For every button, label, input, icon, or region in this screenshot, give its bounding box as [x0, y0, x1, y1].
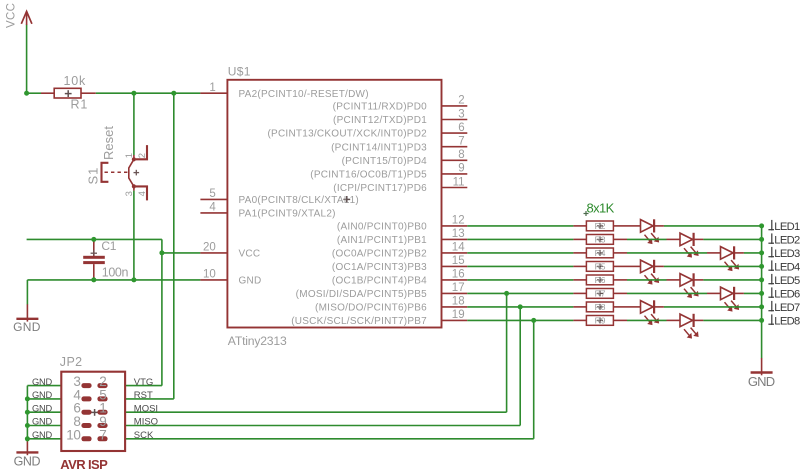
svg-text:(PCINT13/CKOUT/XCK/INT0)PD2: (PCINT13/CKOUT/XCK/INT0)PD2 — [267, 129, 427, 140]
svg-text:10: 10 — [203, 269, 216, 281]
svg-text:5: 5 — [209, 188, 215, 200]
svg-text:LED8: LED8 — [774, 316, 800, 328]
svg-text:12: 12 — [452, 215, 465, 227]
svg-text:(USCK/SCL/SCK/PINT7)PB7: (USCK/SCL/SCK/PINT7)PB7 — [291, 316, 427, 327]
svg-text:GND: GND — [32, 430, 53, 440]
svg-text:R7: R7 — [595, 288, 606, 298]
svg-text:R6: R6 — [595, 275, 606, 285]
svg-text:4: 4 — [137, 191, 148, 196]
svg-text:(PCINT14/INT1)PD3: (PCINT14/INT1)PD3 — [331, 142, 427, 153]
svg-text:LED1: LED1 — [774, 221, 800, 233]
svg-text:18: 18 — [452, 296, 465, 308]
svg-text:14: 14 — [452, 242, 465, 254]
svg-text:ATtiny2313: ATtiny2313 — [228, 334, 287, 348]
svg-text:R8: R8 — [595, 302, 606, 312]
svg-text:LED7: LED7 — [774, 302, 800, 314]
svg-text:GND: GND — [32, 390, 53, 400]
svg-text:AVR ISP: AVR ISP — [60, 457, 108, 472]
svg-text:(OC1A/PCINT3)PB3: (OC1A/PCINT3)PB3 — [332, 262, 427, 273]
svg-text:1: 1 — [124, 153, 135, 158]
svg-text:R2: R2 — [595, 221, 606, 231]
svg-text:GND: GND — [32, 377, 53, 387]
svg-text:(PCINT12/TXD)PD1: (PCINT12/TXD)PD1 — [333, 115, 427, 126]
svg-text:16: 16 — [452, 269, 465, 281]
svg-text:MOSI: MOSI — [134, 403, 158, 414]
svg-text:17: 17 — [452, 282, 465, 294]
svg-text:PA1(PCINT9/XTAL2): PA1(PCINT9/XTAL2) — [239, 209, 336, 220]
svg-text:10: 10 — [66, 427, 80, 442]
svg-text:MISO: MISO — [134, 417, 158, 428]
svg-text:SCK: SCK — [134, 430, 154, 441]
svg-text:GND: GND — [32, 403, 53, 413]
svg-text:Reset: Reset — [101, 126, 116, 160]
svg-text:U$1: U$1 — [228, 65, 251, 79]
svg-text:13: 13 — [452, 228, 465, 240]
svg-text:R3: R3 — [595, 234, 606, 244]
svg-text:6: 6 — [458, 122, 464, 134]
svg-text:2: 2 — [137, 153, 148, 158]
svg-text:PA0(PCINT8/CLK/XTAL1): PA0(PCINT8/CLK/XTAL1) — [239, 195, 359, 206]
svg-text:JP2: JP2 — [60, 355, 83, 369]
svg-text:11: 11 — [453, 176, 465, 188]
svg-text:VTG: VTG — [134, 377, 154, 388]
svg-text:VCC: VCC — [6, 3, 18, 28]
svg-text:LED4: LED4 — [774, 262, 800, 274]
svg-text:19: 19 — [452, 309, 465, 321]
svg-text:RST: RST — [134, 390, 153, 401]
svg-text:S1: S1 — [86, 167, 101, 185]
svg-text:GND: GND — [13, 320, 41, 334]
svg-text:GND: GND — [14, 455, 41, 469]
svg-text:(OC0A/PCINT2)PB2: (OC0A/PCINT2)PB2 — [332, 249, 427, 260]
svg-text:2: 2 — [458, 95, 464, 107]
svg-text:C1: C1 — [101, 239, 116, 253]
svg-text:9: 9 — [458, 163, 464, 175]
svg-text:R1: R1 — [71, 98, 89, 112]
svg-text:15: 15 — [452, 255, 465, 267]
svg-text:LED5: LED5 — [774, 275, 800, 287]
svg-text:10k: 10k — [64, 74, 87, 88]
svg-text:R9: R9 — [595, 315, 606, 325]
svg-text:(MOSI/DI/SDA/PCINT5)PB5: (MOSI/DI/SDA/PCINT5)PB5 — [296, 289, 428, 300]
svg-text:(AIN1/PCINT1)PB1: (AIN1/PCINT1)PB1 — [337, 235, 427, 246]
svg-text:GND: GND — [239, 276, 262, 287]
svg-text:8: 8 — [458, 149, 464, 161]
svg-text:R5: R5 — [595, 261, 606, 271]
svg-text:1: 1 — [209, 82, 215, 94]
svg-text:7: 7 — [458, 136, 464, 148]
svg-text:(AIN0/PCINT0)PB0: (AIN0/PCINT0)PB0 — [337, 222, 427, 233]
svg-text:(ICPI/PCINT17)PD6: (ICPI/PCINT17)PD6 — [333, 183, 427, 194]
svg-text:R4: R4 — [595, 248, 606, 258]
svg-text:(PCINT11/RXD)PD0: (PCINT11/RXD)PD0 — [333, 102, 428, 113]
svg-text:LED6: LED6 — [774, 289, 800, 301]
svg-text:(MISO/DO/PCINT6)PB6: (MISO/DO/PCINT6)PB6 — [315, 303, 427, 314]
svg-text:(PCINT16/OC0B/T1)PD5: (PCINT16/OC0B/T1)PD5 — [310, 170, 427, 181]
svg-text:(OC1B/PCINT4)PB4: (OC1B/PCINT4)PB4 — [332, 276, 427, 287]
svg-text:3: 3 — [458, 108, 464, 120]
svg-text:4: 4 — [209, 202, 216, 214]
svg-text:LED2: LED2 — [774, 235, 800, 247]
svg-text:100n: 100n — [102, 265, 129, 279]
svg-text:VCC: VCC — [239, 249, 261, 260]
svg-text:LED3: LED3 — [774, 248, 800, 260]
svg-text:GND: GND — [748, 374, 775, 389]
svg-text:3: 3 — [124, 191, 135, 196]
svg-text:GND: GND — [32, 417, 53, 427]
svg-text:20: 20 — [203, 242, 216, 254]
svg-text:7: 7 — [99, 427, 107, 442]
svg-text:PA2(PCINT10/-RESET/DW): PA2(PCINT10/-RESET/DW) — [239, 89, 369, 100]
svg-text:8x1K: 8x1K — [587, 201, 615, 216]
svg-text:(PCINT15/T0)PD4: (PCINT15/T0)PD4 — [342, 156, 428, 167]
